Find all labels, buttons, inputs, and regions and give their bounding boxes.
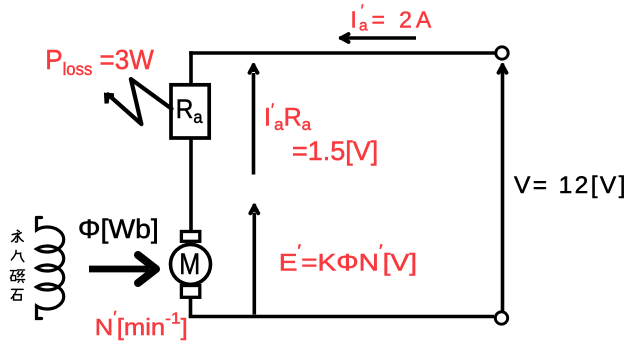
svg-text:E′=KΦN′[V]: E′=KΦN′[V]	[279, 240, 417, 276]
wire: top horizontal	[189, 51, 495, 55]
terminal: top-right	[496, 47, 508, 59]
svg-text:Ploss =3W: Ploss =3W	[45, 44, 154, 79]
label Phi[Wb]	[78, 214, 159, 244]
svg-text:Φ[Wb]: Φ[Wb]	[78, 214, 159, 244]
svg-text:I′a= 2A: I′a= 2A	[350, 2, 435, 34]
label V= 12[V]	[514, 172, 628, 199]
svg-text:V= 12[V]: V= 12[V]	[514, 172, 628, 199]
voltage arrow I'aRa (up)	[250, 65, 258, 175]
resistor Ra	[171, 85, 209, 138]
wire: right vertical	[501, 71, 505, 311]
label =1.5[V]	[292, 136, 378, 166]
voltage arrow E' (up)	[250, 206, 258, 315]
label 磁	[10, 270, 24, 283]
svg-text:N′[min-1]: N′[min-1]	[95, 307, 188, 341]
label N'[min^-1]	[95, 307, 188, 341]
label 久	[11, 250, 23, 261]
label E'=KPhiN'[V]	[279, 240, 417, 276]
svg-text:M: M	[179, 247, 200, 281]
terminal: bottom-right	[495, 312, 507, 324]
label I'a = 2A	[350, 2, 435, 34]
arrowhead: right wire pointing up	[499, 65, 507, 73]
flux arrow (thick, pointing right)	[89, 255, 156, 283]
label I'aRa	[264, 100, 312, 134]
wire: resistor to motor	[189, 138, 193, 232]
permanent magnet coil	[37, 218, 64, 319]
wire: bottom horizontal	[189, 315, 494, 319]
label 石	[11, 289, 23, 300]
label 永 (kanji drawn as paths)	[12, 230, 24, 242]
wire: top-left vertical into resistor	[189, 51, 193, 86]
wire: motor to bottom wire	[189, 297, 193, 317]
current arrow I'a (pointing left)	[341, 34, 416, 42]
svg-text:=1.5[V]: =1.5[V]	[292, 136, 378, 166]
power-loss zigzag arrow	[104, 79, 172, 124]
svg-text:I′aRa: I′aRa	[264, 100, 312, 134]
label P_loss =3W	[45, 44, 154, 79]
motor M	[171, 232, 211, 298]
